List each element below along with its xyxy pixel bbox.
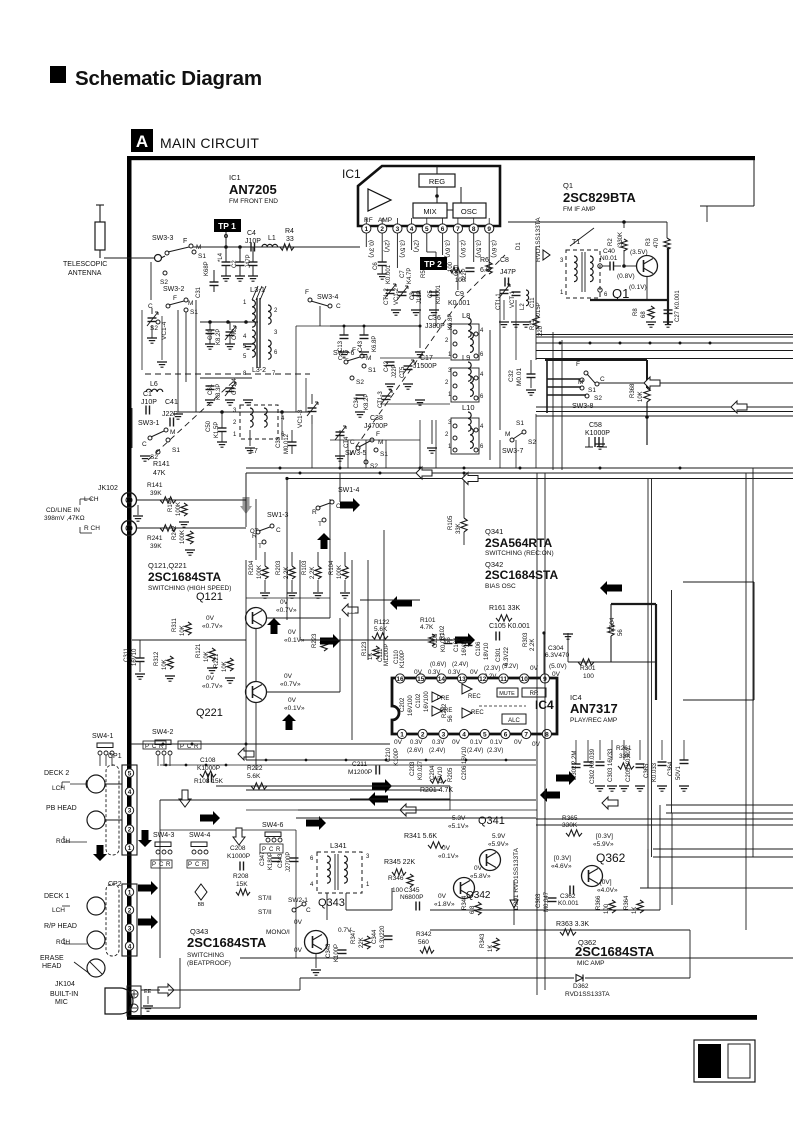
svg-text:(BEATPROOF): (BEATPROOF) xyxy=(187,960,231,967)
svg-text:0.1V: 0.1V xyxy=(470,740,482,746)
svg-text:J4700P: J4700P xyxy=(364,423,388,430)
svg-text:5: 5 xyxy=(425,226,429,233)
svg-text:N0.01: N0.01 xyxy=(600,255,618,262)
svg-text:4.7K: 4.7K xyxy=(420,624,434,631)
svg-text:R121: R121 xyxy=(196,643,202,658)
svg-text:TP 1: TP 1 xyxy=(218,221,236,231)
svg-text:0V: 0V xyxy=(532,741,541,748)
svg-text:K0.033: K0.033 xyxy=(652,762,658,782)
svg-text:39K: 39K xyxy=(150,543,162,550)
svg-text:1: 1 xyxy=(560,290,564,296)
svg-text:FM IF AMP: FM IF AMP xyxy=(563,206,596,213)
svg-text:(2V): (2V) xyxy=(413,240,420,252)
svg-text:RF: RF xyxy=(364,217,373,224)
svg-text:R5: R5 xyxy=(421,270,427,278)
svg-text:K0.027: K0.027 xyxy=(418,760,424,780)
svg-text:C301: C301 xyxy=(496,647,502,662)
svg-text:C208: C208 xyxy=(230,845,246,852)
svg-text:J22P: J22P xyxy=(392,364,398,378)
svg-text:S2: S2 xyxy=(528,439,536,446)
svg-text:S2: S2 xyxy=(594,395,602,402)
svg-text:33K: 33K xyxy=(456,523,462,534)
svg-text:C105 K0.001: C105 K0.001 xyxy=(489,623,530,630)
svg-text:SW4-2: SW4-2 xyxy=(152,729,174,736)
svg-text:R345 22K: R345 22K xyxy=(384,859,415,866)
svg-text:R8: R8 xyxy=(633,308,639,316)
svg-text:MIC: MIC xyxy=(55,999,68,1006)
svg-text:S1: S1 xyxy=(190,309,198,316)
svg-text:«5.9V»: «5.9V» xyxy=(593,841,614,848)
svg-text:K1000P: K1000P xyxy=(227,853,250,860)
svg-text:C108: C108 xyxy=(200,757,216,764)
svg-text:BB: BB xyxy=(198,902,205,908)
svg-text:Q121: Q121 xyxy=(196,591,223,603)
svg-text:F: F xyxy=(173,295,177,302)
svg-text:47K: 47K xyxy=(153,470,166,477)
svg-text:L1: L1 xyxy=(268,235,276,242)
svg-text:Q221: Q221 xyxy=(196,707,223,719)
svg-text:R205: R205 xyxy=(448,767,454,782)
svg-text:13: 13 xyxy=(458,676,466,683)
svg-text:R141: R141 xyxy=(153,461,170,468)
svg-text:S2: S2 xyxy=(150,454,158,461)
svg-text:1K: 1K xyxy=(488,945,494,952)
svg-text:J1500P: J1500P xyxy=(413,363,437,370)
svg-text:MIX: MIX xyxy=(423,207,436,216)
svg-text:L6: L6 xyxy=(150,381,158,388)
svg-text:R301: R301 xyxy=(580,665,596,672)
svg-text:2: 2 xyxy=(233,420,237,426)
svg-text:0V: 0V xyxy=(284,673,293,680)
svg-text:C205 K0.001: C205 K0.001 xyxy=(626,746,632,782)
svg-text:3: 3 xyxy=(396,226,400,233)
svg-text:C6: C6 xyxy=(373,262,379,270)
svg-text:L10: L10 xyxy=(462,403,475,412)
svg-text:L7: L7 xyxy=(250,448,258,455)
svg-text:C: C xyxy=(600,376,605,383)
svg-text:6: 6 xyxy=(480,352,484,358)
svg-text:0V: 0V xyxy=(206,675,215,682)
svg-text:M0.01: M0.01 xyxy=(516,368,523,386)
svg-text:8: 8 xyxy=(472,226,476,233)
svg-text:L341: L341 xyxy=(330,841,347,850)
svg-text:R2: R2 xyxy=(608,238,614,246)
svg-text:F: F xyxy=(576,361,580,368)
svg-text:K0.001: K0.001 xyxy=(558,900,579,907)
svg-text:1: 1 xyxy=(364,226,368,233)
svg-text:C58: C58 xyxy=(589,422,602,429)
svg-text:R242: R242 xyxy=(172,525,178,540)
svg-text:0V: 0V xyxy=(288,697,297,704)
svg-text:SWITCHING: SWITCHING xyxy=(187,952,224,959)
svg-text:C: C xyxy=(336,303,341,310)
svg-text:R363 3.3K: R363 3.3K xyxy=(556,921,589,928)
svg-text:K100P: K100P xyxy=(400,650,406,668)
svg-text:0V: 0V xyxy=(474,865,483,872)
svg-text:C343: C343 xyxy=(278,853,284,868)
svg-text:PB HEAD: PB HEAD xyxy=(46,805,77,812)
svg-text:J47P: J47P xyxy=(246,254,252,268)
svg-text:TP 2: TP 2 xyxy=(424,259,442,269)
svg-text:6: 6 xyxy=(604,292,608,298)
svg-text:C348: C348 xyxy=(326,943,332,958)
svg-text:BIAS OSC: BIAS OSC xyxy=(485,583,516,590)
svg-text:4: 4 xyxy=(243,334,247,340)
svg-text:VC1-3: VC1-3 xyxy=(297,409,304,428)
svg-text:0V: 0V xyxy=(470,669,479,676)
svg-text:FM FRONT END: FM FRONT END xyxy=(229,198,278,205)
svg-text:2: 2 xyxy=(445,432,449,438)
svg-text:R204: R204 xyxy=(249,560,255,575)
svg-text:0V: 0V xyxy=(514,739,523,746)
svg-text:«0.7V»: «0.7V» xyxy=(280,681,301,688)
svg-text:1: 1 xyxy=(128,845,132,852)
svg-text:R: R xyxy=(202,862,207,868)
svg-text:R: R xyxy=(276,847,281,853)
svg-text:R4: R4 xyxy=(285,228,294,235)
svg-text:CD/LINE IN: CD/LINE IN xyxy=(46,507,80,514)
svg-text:5: 5 xyxy=(128,770,132,777)
svg-text:6: 6 xyxy=(310,856,314,862)
svg-text:JK104: JK104 xyxy=(55,981,75,988)
svg-text:F: F xyxy=(183,238,187,245)
svg-text:56: 56 xyxy=(448,715,454,722)
svg-text:OT: OT xyxy=(250,529,259,535)
svg-text:M1200P: M1200P xyxy=(384,644,390,666)
svg-text:«0.1V»: «0.1V» xyxy=(438,853,459,860)
svg-text:3: 3 xyxy=(128,808,132,815)
svg-text:ANTENNA: ANTENNA xyxy=(68,270,102,277)
svg-text:1: 1 xyxy=(233,432,237,438)
svg-text:SW4-4: SW4-4 xyxy=(189,832,211,839)
svg-text:C8: C8 xyxy=(500,257,509,264)
svg-text:(2.3V): (2.3V) xyxy=(487,748,503,754)
svg-text:0.7V: 0.7V xyxy=(338,927,352,934)
svg-text:C304: C304 xyxy=(548,645,564,652)
svg-text:«4.6V»: «4.6V» xyxy=(551,863,572,870)
svg-text:J10P: J10P xyxy=(141,399,157,406)
svg-text:M: M xyxy=(578,379,583,386)
svg-text:S2: S2 xyxy=(150,325,158,332)
svg-text:100: 100 xyxy=(448,261,454,272)
svg-text:SW4-6: SW4-6 xyxy=(262,822,284,829)
svg-text:Schematic Diagram: Schematic Diagram xyxy=(75,67,262,90)
svg-text:2: 2 xyxy=(380,226,384,233)
svg-text:Q121,Q221: Q121,Q221 xyxy=(148,561,187,570)
svg-text:«0.7V»: «0.7V» xyxy=(202,623,223,630)
svg-text:MIC AMP: MIC AMP xyxy=(577,960,604,967)
svg-text:K6.8P: K6.8P xyxy=(372,336,378,352)
svg-text:N6800P: N6800P xyxy=(400,894,424,901)
svg-text:1: 1 xyxy=(128,889,132,896)
svg-text:ST/II: ST/II xyxy=(258,909,272,916)
svg-text:R103: R103 xyxy=(302,560,308,575)
svg-text:0V: 0V xyxy=(294,919,303,926)
svg-text:R303: R303 xyxy=(523,632,529,647)
svg-text:K0.001: K0.001 xyxy=(386,264,392,284)
svg-text:C345: C345 xyxy=(404,887,420,894)
svg-text:DECK 1: DECK 1 xyxy=(44,893,69,900)
svg-text:MUTE: MUTE xyxy=(499,691,515,697)
svg-text:2: 2 xyxy=(128,907,132,914)
svg-text:R201 4.7K: R201 4.7K xyxy=(420,787,453,794)
svg-text:R346: R346 xyxy=(388,875,404,882)
svg-text:(2.4V): (2.4V) xyxy=(452,662,468,668)
svg-text:0.3V: 0.3V xyxy=(432,740,444,746)
svg-text:6: 6 xyxy=(441,226,445,233)
svg-text:R222: R222 xyxy=(247,765,263,772)
svg-text:6: 6 xyxy=(480,394,484,400)
svg-text:SWITCHING (REC:ON): SWITCHING (REC:ON) xyxy=(485,550,554,557)
svg-text:(2.4V): (2.4V) xyxy=(429,748,445,754)
svg-text:C: C xyxy=(276,527,281,534)
svg-text:ST/II: ST/II xyxy=(258,895,272,902)
svg-text:R368: R368 xyxy=(630,383,636,398)
svg-text:D1: D1 xyxy=(516,242,522,250)
svg-text:3: 3 xyxy=(366,854,370,860)
svg-text:4: 4 xyxy=(310,882,314,888)
svg-text:(0.3V): (0.3V) xyxy=(367,240,374,258)
svg-text:C303 16V33: C303 16V33 xyxy=(608,748,614,782)
svg-text:R241: R241 xyxy=(147,535,163,542)
svg-text:REC: REC xyxy=(468,694,481,700)
svg-text:SW4-1: SW4-1 xyxy=(92,733,114,740)
svg-text:C41: C41 xyxy=(165,399,178,406)
svg-text:0V: 0V xyxy=(394,739,403,746)
svg-text:4: 4 xyxy=(462,731,466,738)
svg-text:J22P: J22P xyxy=(462,268,468,282)
svg-text:C43: C43 xyxy=(358,340,364,352)
svg-text:«0.1V»: «0.1V» xyxy=(284,637,305,644)
svg-text:2: 2 xyxy=(445,380,449,386)
svg-text:C104: C104 xyxy=(454,637,460,652)
svg-text:2SC1684STA: 2SC1684STA xyxy=(575,944,655,959)
svg-text:R364: R364 xyxy=(624,895,630,910)
svg-text:«0.7V»: «0.7V» xyxy=(202,683,223,690)
svg-text:5.9V: 5.9V xyxy=(492,833,506,840)
svg-text:ERASE: ERASE xyxy=(40,955,64,962)
svg-text:A: A xyxy=(136,132,148,151)
svg-text:RCH: RCH xyxy=(56,939,70,946)
svg-text:C7: C7 xyxy=(400,270,406,278)
svg-text:C: C xyxy=(269,847,274,853)
svg-text:M: M xyxy=(170,429,175,436)
svg-text:15K: 15K xyxy=(236,881,248,888)
svg-text:22K: 22K xyxy=(359,937,365,948)
svg-text:R/P HEAD: R/P HEAD xyxy=(44,923,77,930)
svg-text:C50: C50 xyxy=(206,420,212,432)
svg-text:M0.012: M0.012 xyxy=(284,433,290,454)
svg-text:R105: R105 xyxy=(448,515,454,530)
svg-text:R203: R203 xyxy=(276,560,282,575)
svg-text:SW4-3: SW4-3 xyxy=(153,832,175,839)
svg-text:2SC829BTA: 2SC829BTA xyxy=(563,190,636,205)
svg-text:6: 6 xyxy=(504,731,508,738)
svg-text:C2: C2 xyxy=(232,260,238,268)
svg-text:0V: 0V xyxy=(294,947,303,954)
svg-text:K8.2P: K8.2P xyxy=(216,329,222,345)
svg-text:0V: 0V xyxy=(438,893,447,900)
svg-text:2: 2 xyxy=(445,338,449,344)
svg-text:C344: C344 xyxy=(372,929,378,944)
svg-text:6.3V470: 6.3V470 xyxy=(545,652,570,659)
svg-text:R122: R122 xyxy=(374,619,390,626)
svg-text:VCT-1: VCT-1 xyxy=(510,290,516,308)
svg-text:3: 3 xyxy=(442,731,446,738)
svg-text:SW1-3: SW1-3 xyxy=(267,512,289,519)
svg-text:R: R xyxy=(166,862,171,868)
svg-text:RVD1SS133TA: RVD1SS133TA xyxy=(565,991,610,998)
svg-text:C311: C311 xyxy=(124,647,130,662)
svg-text:R108 15K: R108 15K xyxy=(194,778,224,785)
svg-text:P: P xyxy=(152,862,156,868)
svg-text:5.3V: 5.3V xyxy=(452,815,466,822)
svg-text:C364: C364 xyxy=(668,761,674,776)
svg-text:C102: C102 xyxy=(416,693,422,708)
svg-text:SW3-4: SW3-4 xyxy=(317,294,339,301)
svg-text:(2.4V): (2.4V) xyxy=(467,748,483,754)
svg-text:10: 10 xyxy=(521,676,529,683)
svg-text:100K: 100K xyxy=(257,565,263,579)
svg-text:S2: S2 xyxy=(160,279,168,286)
svg-text:LCH: LCH xyxy=(52,785,65,792)
svg-text:R141: R141 xyxy=(147,482,163,489)
svg-text:R365: R365 xyxy=(562,815,578,822)
svg-text:4: 4 xyxy=(410,226,414,233)
svg-text:S1: S1 xyxy=(198,253,206,260)
svg-text:J15P: J15P xyxy=(536,302,542,316)
svg-text:S1: S1 xyxy=(368,367,376,374)
svg-text:Q1: Q1 xyxy=(563,181,573,190)
svg-text:4: 4 xyxy=(480,372,484,378)
svg-text:K0.001: K0.001 xyxy=(436,284,442,304)
svg-text:C38: C38 xyxy=(370,415,383,422)
svg-text:C103: C103 xyxy=(433,633,439,648)
svg-text:S1: S1 xyxy=(172,447,180,454)
svg-text:14: 14 xyxy=(438,676,446,683)
svg-text:R311: R311 xyxy=(172,617,178,632)
svg-text:R223: R223 xyxy=(312,633,318,648)
svg-text:D362: D362 xyxy=(573,983,589,990)
svg-text:F: F xyxy=(376,431,380,438)
svg-text:SW3-8: SW3-8 xyxy=(572,403,594,410)
svg-text:16V100: 16V100 xyxy=(408,695,414,716)
svg-text:RCH: RCH xyxy=(56,838,70,845)
svg-text:0V: 0V xyxy=(552,671,561,678)
svg-text:16: 16 xyxy=(396,676,404,683)
svg-text:R221: R221 xyxy=(214,653,220,668)
svg-text:4: 4 xyxy=(128,789,132,796)
svg-text:2.2K: 2.2K xyxy=(310,567,316,579)
svg-text:1: 1 xyxy=(400,731,404,738)
svg-text:(2.6V): (2.6V) xyxy=(407,748,423,754)
svg-text:1: 1 xyxy=(243,300,247,306)
svg-text:C: C xyxy=(195,862,200,868)
svg-text:Q341: Q341 xyxy=(485,527,503,536)
svg-text:S2: S2 xyxy=(356,379,364,386)
svg-text:M1200P: M1200P xyxy=(348,769,372,776)
svg-text:D301 RVD1SS133TA: D301 RVD1SS133TA xyxy=(513,847,520,910)
svg-text:2SC1684STA: 2SC1684STA xyxy=(148,570,221,584)
svg-text:C202: C202 xyxy=(400,697,406,712)
svg-text:R366: R366 xyxy=(596,895,602,910)
svg-text:6: 6 xyxy=(274,350,278,356)
svg-text:2: 2 xyxy=(421,731,425,738)
svg-text:100K: 100K xyxy=(176,502,182,516)
svg-text:100K: 100K xyxy=(337,565,343,579)
svg-text:Q1: Q1 xyxy=(612,286,629,301)
svg-text:0.3V: 0.3V xyxy=(410,740,422,746)
svg-text:(0.6V): (0.6V) xyxy=(430,662,446,668)
svg-text:M: M xyxy=(505,431,510,438)
svg-text:K4.7P: K4.7P xyxy=(407,268,413,284)
svg-text:MAIN CIRCUIT: MAIN CIRCUIT xyxy=(160,135,259,151)
svg-text:R161 33K: R161 33K xyxy=(489,605,520,612)
svg-text:12: 12 xyxy=(479,676,487,683)
svg-text:7: 7 xyxy=(456,226,460,233)
svg-text:L9: L9 xyxy=(462,353,470,362)
svg-text:2SC1684STA: 2SC1684STA xyxy=(485,568,558,582)
svg-text:Q362: Q362 xyxy=(596,851,626,865)
svg-text:3: 3 xyxy=(274,330,278,336)
svg-text:1: 1 xyxy=(366,882,370,888)
svg-text:C106: C106 xyxy=(476,641,482,656)
svg-text:50V1: 50V1 xyxy=(676,765,682,780)
svg-text:K0.001: K0.001 xyxy=(448,300,470,307)
svg-text:7: 7 xyxy=(524,731,528,738)
svg-text:6: 6 xyxy=(480,444,484,450)
svg-text:SW3-1: SW3-1 xyxy=(138,420,160,427)
svg-text:8: 8 xyxy=(545,731,549,738)
svg-text:M: M xyxy=(188,300,193,307)
svg-text:AMP: AMP xyxy=(378,217,392,224)
svg-text:5.6K: 5.6K xyxy=(374,626,388,633)
svg-text:M: M xyxy=(366,355,371,362)
svg-text:K100P: K100P xyxy=(394,748,400,766)
svg-text:68: 68 xyxy=(641,311,647,318)
svg-text:16V10: 16V10 xyxy=(132,648,138,666)
svg-text:K1.5P: K1.5P xyxy=(214,422,220,438)
svg-text:C—: C— xyxy=(338,356,348,362)
svg-text:J10P: J10P xyxy=(245,238,261,245)
svg-text:F: F xyxy=(305,289,309,296)
svg-text:F: F xyxy=(352,347,356,354)
svg-text:0V: 0V xyxy=(452,739,461,746)
svg-text:R342: R342 xyxy=(416,931,432,938)
svg-text:J47P: J47P xyxy=(500,269,516,276)
svg-text:RR: RR xyxy=(530,691,539,697)
svg-text:K1000P: K1000P xyxy=(585,430,610,437)
svg-text:Q343: Q343 xyxy=(318,897,345,909)
svg-text:AN7205: AN7205 xyxy=(229,182,277,197)
svg-text:33: 33 xyxy=(286,236,294,243)
svg-text:0V: 0V xyxy=(288,629,297,636)
svg-text:MONO/I: MONO/I xyxy=(266,929,290,936)
svg-text:C33: C33 xyxy=(276,436,282,448)
svg-text:C36: C36 xyxy=(428,315,441,322)
svg-text:LCH: LCH xyxy=(52,907,65,914)
svg-text:SW3-2: SW3-2 xyxy=(163,286,185,293)
svg-text:5: 5 xyxy=(483,731,487,738)
svg-text:PRE: PRE xyxy=(437,696,449,702)
svg-text:2SC1684STA: 2SC1684STA xyxy=(187,935,267,950)
svg-text:2.2K: 2.2K xyxy=(530,639,536,651)
svg-text:C203: C203 xyxy=(410,761,416,776)
svg-text:AN7317: AN7317 xyxy=(570,701,618,716)
svg-text:IC1: IC1 xyxy=(342,167,361,181)
svg-text:T1: T1 xyxy=(572,239,580,246)
svg-text:(2.3V): (2.3V) xyxy=(484,666,500,672)
